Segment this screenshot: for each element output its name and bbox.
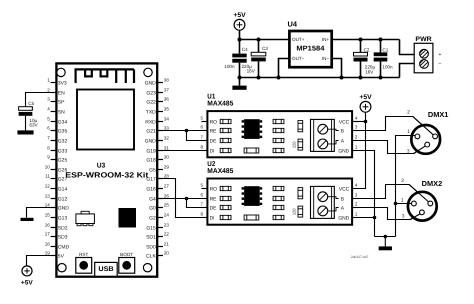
- svg-text:RO: RO: [210, 186, 218, 192]
- svg-text:USB: USB: [98, 266, 113, 273]
- svg-text:2: 2: [407, 110, 410, 116]
- svg-text:DMX2: DMX2: [422, 179, 443, 188]
- svg-text:G19: G19: [146, 148, 156, 154]
- svg-text:GND: GND: [58, 205, 70, 211]
- svg-text:30: 30: [164, 155, 170, 160]
- svg-text:25: 25: [164, 203, 170, 208]
- svg-text:SD1: SD1: [146, 234, 156, 240]
- svg-text:+: +: [438, 52, 441, 58]
- svg-text:G15: G15: [146, 225, 156, 231]
- svg-text:5V: 5V: [58, 253, 65, 259]
- svg-text:IN+: IN+: [322, 37, 330, 42]
- svg-text:U4: U4: [288, 19, 298, 28]
- svg-text:3: 3: [402, 214, 405, 220]
- svg-text:G13: G13: [58, 215, 68, 221]
- svg-text:16V: 16V: [247, 68, 256, 73]
- svg-text:2: 2: [401, 178, 404, 184]
- svg-text:10: 10: [45, 165, 51, 170]
- svg-text:1: 1: [401, 198, 404, 204]
- svg-text:16: 16: [45, 223, 51, 228]
- svg-text:OUT−: OUT−: [292, 56, 305, 61]
- svg-text:G26: G26: [58, 167, 68, 173]
- svg-text:DI: DI: [210, 215, 215, 221]
- svg-text:G18: G18: [146, 157, 156, 163]
- svg-text:1: 1: [407, 129, 410, 135]
- svg-text:29: 29: [164, 165, 170, 170]
- svg-text:GND: GND: [338, 215, 349, 221]
- svg-text:GND: GND: [338, 148, 349, 154]
- svg-text:G35: G35: [58, 128, 68, 134]
- svg-text:120: 120: [291, 141, 296, 148]
- svg-text:OUT+: OUT+: [292, 37, 305, 42]
- svg-text:13: 13: [45, 194, 51, 199]
- svg-text:G12: G12: [58, 196, 68, 202]
- svg-text:+5V: +5V: [359, 94, 372, 101]
- svg-text:11: 11: [45, 174, 50, 179]
- svg-text:G25: G25: [58, 157, 68, 163]
- svg-text:RXD: RXD: [145, 119, 156, 125]
- svg-text:15: 15: [45, 213, 51, 218]
- svg-text:G0: G0: [149, 205, 156, 211]
- svg-text:G23: G23: [146, 90, 156, 96]
- svg-text:CMD: CMD: [58, 244, 70, 250]
- svg-text:SD0: SD0: [146, 244, 156, 250]
- svg-text:B: B: [341, 128, 344, 134]
- svg-text:G5: G5: [149, 167, 156, 173]
- svg-text:PWR: PWR: [415, 36, 432, 43]
- svg-text:DI: DI: [210, 148, 215, 154]
- svg-text:12: 12: [45, 184, 51, 189]
- svg-text:SN: SN: [58, 109, 65, 115]
- svg-text:G2: G2: [149, 215, 156, 221]
- svg-text:C1: C1: [382, 48, 388, 53]
- svg-text:DMX1: DMX1: [428, 110, 449, 119]
- svg-text:C2: C2: [364, 47, 370, 52]
- svg-text:22: 22: [164, 232, 170, 237]
- svg-text:G22: G22: [146, 99, 156, 105]
- svg-text:SP: SP: [58, 99, 65, 105]
- svg-text:B: B: [341, 196, 344, 202]
- svg-text:17: 17: [45, 232, 51, 237]
- svg-text:DE: DE: [210, 205, 218, 211]
- svg-text:SD2: SD2: [58, 225, 68, 231]
- svg-text:3: 3: [407, 149, 410, 155]
- svg-text:100n: 100n: [382, 64, 393, 69]
- svg-text:C3: C3: [262, 46, 268, 51]
- svg-text:U2: U2: [207, 161, 215, 168]
- svg-text:RST: RST: [79, 252, 88, 257]
- svg-text:GND: GND: [145, 138, 157, 144]
- svg-text:23: 23: [164, 223, 170, 228]
- svg-text:DE: DE: [210, 138, 218, 144]
- svg-text:G14: G14: [58, 186, 68, 192]
- svg-text:240127-007: 240127-007: [351, 255, 369, 259]
- svg-text:+5V: +5V: [21, 280, 34, 287]
- svg-text:16V: 16V: [365, 70, 374, 75]
- svg-text:120: 120: [291, 208, 296, 215]
- svg-text:C4: C4: [242, 47, 248, 52]
- svg-text:G34: G34: [58, 119, 68, 125]
- svg-text:36: 36: [164, 97, 170, 102]
- svg-text:20: 20: [164, 251, 170, 256]
- svg-text:+5V: +5V: [233, 12, 246, 19]
- svg-text:MP1584: MP1584: [296, 46, 324, 53]
- svg-text:G32: G32: [58, 138, 68, 144]
- svg-text:U1: U1: [207, 94, 215, 101]
- svg-text:BOOT: BOOT: [120, 252, 133, 257]
- svg-text:U3: U3: [97, 163, 106, 170]
- svg-text:RE: RE: [210, 128, 218, 134]
- svg-text:G27: G27: [58, 176, 68, 182]
- svg-text:63V: 63V: [29, 123, 38, 128]
- svg-text:RO: RO: [210, 119, 218, 125]
- svg-text:EN: EN: [58, 90, 65, 96]
- svg-text:38: 38: [164, 78, 170, 83]
- svg-text:MAX485: MAX485: [207, 101, 233, 108]
- svg-text:32: 32: [164, 136, 170, 141]
- svg-text:G33: G33: [58, 148, 68, 154]
- svg-text:SD3: SD3: [58, 234, 68, 240]
- svg-text:37: 37: [164, 88, 170, 93]
- svg-text:MAX485: MAX485: [207, 168, 233, 175]
- svg-text:−: −: [438, 61, 441, 67]
- svg-text:VCC: VCC: [339, 186, 350, 192]
- svg-text:RE: RE: [210, 196, 218, 202]
- svg-text:27: 27: [164, 184, 170, 189]
- svg-text:18: 18: [45, 242, 51, 247]
- svg-text:CLK: CLK: [146, 253, 156, 259]
- svg-text:34: 34: [164, 117, 170, 122]
- svg-text:3V3: 3V3: [58, 80, 67, 86]
- svg-text:24: 24: [164, 213, 170, 218]
- svg-text:21: 21: [164, 242, 170, 247]
- svg-text:35: 35: [164, 107, 170, 112]
- svg-text:100n: 100n: [224, 64, 235, 69]
- svg-text:C5: C5: [28, 101, 34, 106]
- svg-text:GND: GND: [145, 80, 157, 86]
- svg-text:ESP-WROOM-32 Kit: ESP-WROOM-32 Kit: [65, 170, 149, 179]
- svg-text:G21: G21: [146, 128, 156, 134]
- svg-text:G17: G17: [146, 176, 156, 182]
- svg-text:G4: G4: [149, 196, 156, 202]
- svg-text:IN−: IN−: [322, 56, 330, 61]
- svg-text:VCC: VCC: [339, 119, 350, 125]
- svg-text:G16: G16: [146, 186, 156, 192]
- svg-text:TXD: TXD: [146, 109, 156, 115]
